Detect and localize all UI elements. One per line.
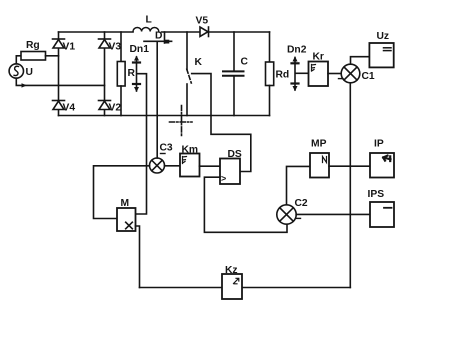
svg-text:C2: C2 bbox=[295, 198, 308, 209]
svg-text:IP: IP bbox=[374, 139, 384, 150]
svg-text:V2: V2 bbox=[109, 103, 122, 114]
wire Kr to C1 bbox=[328, 73, 341, 75]
svg-text:V5: V5 bbox=[196, 16, 209, 27]
wire C2 top to MP bbox=[287, 166, 311, 204]
sensor D (current sensor after L) bbox=[144, 31, 172, 44]
svg-text:Kz: Kz bbox=[225, 265, 238, 276]
svg-text:Dn1: Dn1 bbox=[130, 44, 150, 55]
svg-text:C1: C1 bbox=[362, 71, 375, 82]
regulator Kr bbox=[309, 52, 329, 87]
sensor Dn2 bbox=[287, 45, 307, 92]
svg-text:K: K bbox=[195, 57, 203, 68]
wire C2 bottom to DS input bbox=[204, 177, 287, 232]
wire source bottom return bbox=[16, 78, 104, 87]
svg-text:R: R bbox=[128, 68, 136, 79]
wire D sensor to C3 bbox=[156, 41, 158, 158]
diode V4 bbox=[53, 101, 76, 114]
svg-text:V1: V1 bbox=[63, 42, 76, 53]
wire C3 left to M left input bbox=[94, 166, 150, 219]
svg-text:MP: MP bbox=[311, 139, 327, 150]
wire MP to IP bbox=[329, 165, 370, 167]
multiplier block M bbox=[117, 198, 136, 231]
capacitor C bbox=[223, 32, 249, 116]
diode V3 bbox=[99, 39, 122, 53]
svg-text:V3: V3 bbox=[109, 42, 122, 53]
resistor Rg bbox=[21, 40, 46, 60]
svg-text:U: U bbox=[26, 67, 33, 78]
svg-text:V4: V4 bbox=[63, 103, 76, 114]
wire Rg to bridge bbox=[46, 55, 59, 57]
switch K bbox=[187, 32, 203, 116]
wire bridge middle leg bbox=[104, 32, 106, 116]
svg-text:C3: C3 bbox=[160, 143, 173, 154]
wire source top to Rg bbox=[16, 56, 21, 64]
wire top bus bbox=[59, 31, 270, 33]
wire C2 to IPS bbox=[296, 213, 370, 215]
block IP bbox=[370, 139, 394, 178]
svg-text:IPS: IPS bbox=[368, 189, 385, 200]
sensor Dn1 bbox=[130, 44, 150, 92]
wire C3 to Km bbox=[165, 165, 181, 167]
wire bottom feedback bbox=[140, 287, 351, 289]
svg-text:D: D bbox=[155, 31, 162, 42]
comparator C3 bbox=[150, 143, 173, 174]
resistor R bbox=[117, 32, 135, 116]
svg-text:DS: DS bbox=[228, 149, 242, 160]
inductor L bbox=[133, 15, 159, 32]
dash-dot linkage of K bbox=[170, 106, 193, 136]
wire M output to bottom feedback wire bbox=[136, 226, 140, 288]
block IPS bbox=[368, 189, 395, 227]
modulator block MP bbox=[310, 139, 329, 178]
svg-text:Dn2: Dn2 bbox=[287, 45, 307, 56]
trigger block DS bbox=[220, 149, 242, 184]
diode V2 bbox=[99, 101, 122, 114]
source U bbox=[9, 64, 33, 78]
svg-text:>: > bbox=[221, 174, 226, 184]
wire bottom bus bbox=[59, 115, 270, 117]
svg-text:Kr: Kr bbox=[313, 52, 324, 63]
svg-text:M: M bbox=[121, 198, 130, 209]
svg-text:Rg: Rg bbox=[26, 40, 40, 51]
wire bridge left leg bbox=[58, 32, 60, 116]
wire Dn2 to Kr bbox=[296, 72, 309, 74]
wire switch K control to DS output bbox=[192, 74, 251, 172]
diode V1 bbox=[53, 39, 76, 53]
resistor Rd bbox=[266, 32, 290, 116]
svg-text:Km: Km bbox=[182, 145, 199, 156]
contactor block Km bbox=[180, 145, 200, 177]
wire Uz to C1 bbox=[351, 57, 370, 64]
svg-text:Uz: Uz bbox=[377, 31, 390, 42]
wire Dn1 tap to M right input bbox=[136, 74, 147, 214]
limiter block Kz bbox=[222, 265, 242, 299]
wire Km to DS bbox=[200, 165, 221, 167]
setpoint block Uz bbox=[369, 31, 393, 67]
svg-text:C: C bbox=[241, 57, 249, 68]
diode V5 bbox=[196, 16, 209, 37]
comparator C1 bbox=[339, 64, 375, 83]
svg-text:L: L bbox=[146, 15, 152, 26]
wire C1 output down to feedback bbox=[349, 83, 351, 288]
comparator C2 bbox=[277, 198, 308, 224]
svg-text:Rd: Rd bbox=[276, 70, 290, 81]
